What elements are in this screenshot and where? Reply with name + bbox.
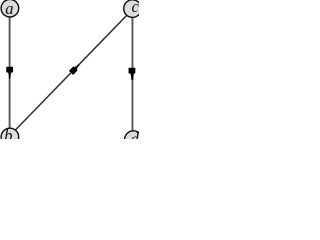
node a (1, 0, 19, 17)
node c (124, 0, 142, 17)
wire edge b->c (15, 15, 127, 130)
wire edge a->b (9, 17, 11, 128)
arrowhead b->c (69, 61, 82, 75)
wire edge c->d (131, 18, 133, 130)
node b (1, 128, 19, 146)
svg-text:c: c (132, 0, 139, 16)
arrowhead a->b (6, 67, 13, 79)
svg-text:a: a (5, 0, 13, 18)
svg-text:b: b (4, 126, 12, 139)
svg-text:d: d (130, 129, 139, 139)
node d (125, 131, 143, 149)
arrowhead c->d (129, 68, 136, 80)
